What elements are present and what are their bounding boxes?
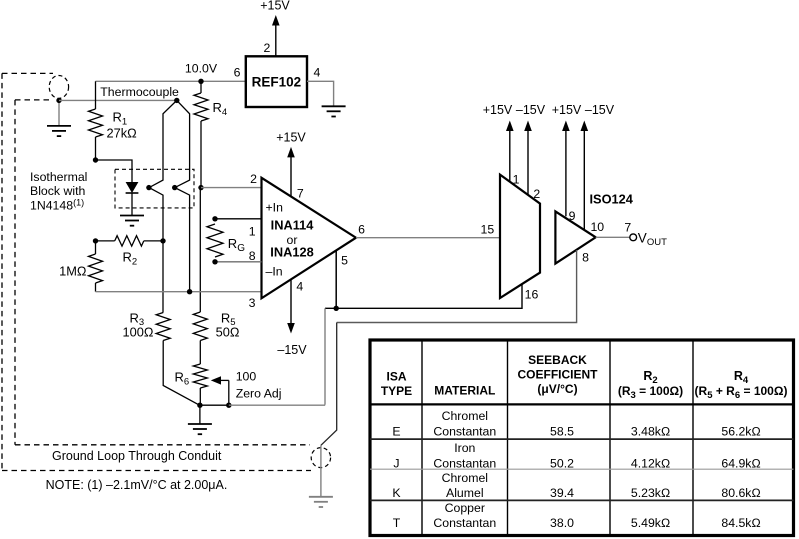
label ISO124 <box>590 191 634 206</box>
svg-text:–15V: –15V <box>277 343 307 357</box>
label INA128 <box>270 245 313 260</box>
wire diode cathode lead <box>131 193 133 216</box>
wire diode anode lead <box>96 160 133 182</box>
label or <box>287 233 298 247</box>
label 10.0V <box>185 61 218 75</box>
value 100Ohm (R3) <box>123 325 154 340</box>
table row type J <box>393 441 760 470</box>
conduit opening ellipse (bottom right) <box>311 448 330 468</box>
resistor R3 <box>156 313 170 341</box>
wire zero-adj node to pin5 riser <box>229 404 325 406</box>
iso-amp U2 ISO124 input trapezoid <box>500 175 540 298</box>
svg-text:Block with: Block with <box>30 184 86 198</box>
label -15V (INA) <box>277 343 307 357</box>
ground R6 node <box>188 424 212 434</box>
power -15V arrow (ISO pin 2) <box>524 121 532 195</box>
label -In <box>266 265 283 279</box>
wire thermocouple shield node to junction <box>59 99 177 101</box>
wire -In rail to INA pin 3 <box>96 291 262 293</box>
svg-text:–In: –In <box>266 265 283 279</box>
svg-text:–15V: –15V <box>585 103 615 117</box>
svg-text:SEEBACK: SEEBACK <box>528 353 587 367</box>
ground conduit (earth) <box>309 497 333 507</box>
svg-text:7: 7 <box>624 221 631 235</box>
svg-text:4.12kΩ: 4.12kΩ <box>631 456 670 470</box>
resistor R2 <box>115 236 144 246</box>
svg-text:6: 6 <box>234 66 241 80</box>
svg-text:Zero Adj: Zero Adj <box>236 386 282 400</box>
label ISO pin 10 <box>590 220 604 234</box>
wire 1M bottom lead to -In rail corner <box>95 283 97 292</box>
svg-text:56.2kΩ: 56.2kΩ <box>721 424 760 438</box>
svg-text:4: 4 <box>313 66 320 80</box>
svg-text:INA128: INA128 <box>270 245 313 260</box>
value 27kOhm (R1) <box>107 126 138 141</box>
svg-text:9: 9 <box>569 209 576 223</box>
svg-text:64.9kΩ: 64.9kΩ <box>721 456 760 470</box>
label R5 <box>221 310 236 328</box>
wire 10.0V rail corner down to R1 <box>95 81 97 109</box>
label +15V (REF102) <box>260 0 290 13</box>
wire ISO pin 10 to VOUT <box>596 236 630 238</box>
ground REF102 pin 4 <box>322 106 346 116</box>
node thermocouple junction <box>174 98 179 103</box>
svg-text:8: 8 <box>582 251 589 265</box>
ground diode <box>120 216 144 226</box>
label REF102 pin 4 <box>313 66 320 80</box>
label INA pin 2 <box>250 172 257 186</box>
svg-text:Thermocouple: Thermocouple <box>100 85 179 99</box>
wire R4 bottom lead to +In node <box>200 121 202 188</box>
label INA pin 3 <box>249 296 256 310</box>
svg-text:ISO124: ISO124 <box>590 191 634 206</box>
value 50Ohm (R5) <box>216 325 240 340</box>
svg-text:COEFFICIENT: COEFFICIENT <box>518 367 599 381</box>
svg-text:84.5kΩ: 84.5kΩ <box>721 516 760 530</box>
svg-text:J: J <box>393 456 399 470</box>
node RG bottom <box>212 259 217 264</box>
node R6 ground junction <box>197 403 202 408</box>
conduit shield inner dashed line (bottom horizontal) <box>15 444 310 446</box>
wire R4 top lead <box>200 81 202 93</box>
svg-text:80.6kΩ: 80.6kΩ <box>721 486 760 500</box>
power +15V arrow (INA pin 7) <box>287 147 295 197</box>
node +In junction (R4/R5) <box>198 185 203 190</box>
node thermocouple right junction on isothermal block <box>172 185 177 190</box>
label Ground Loop Through Conduit <box>52 449 222 463</box>
svg-text:TYPE: TYPE <box>381 384 412 398</box>
label R3 <box>130 310 145 328</box>
svg-text:–15V: –15V <box>516 103 546 117</box>
wire 10.0V rail <box>96 80 246 82</box>
conduit shield outer dashed line (top horizontal) <box>2 72 53 74</box>
power +15V arrow (REF102 pin 2) <box>272 15 280 56</box>
table row separator K/T <box>370 499 794 501</box>
svg-text:6: 6 <box>358 222 365 236</box>
label ISO pin 2 <box>533 187 540 201</box>
svg-text:E: E <box>392 424 400 438</box>
power +15V arrow (ISO pin 1) <box>506 121 514 182</box>
svg-text:INA114: INA114 <box>271 218 315 233</box>
wire pin-8 net down to conduit opening <box>321 323 337 446</box>
svg-text:(μV/°C): (μV/°C) <box>537 382 577 396</box>
table row type T <box>393 501 761 530</box>
resistor R6 (Zero Adj pot) <box>193 364 207 388</box>
terminal VOUT circle <box>630 234 637 241</box>
svg-text:3: 3 <box>249 296 256 310</box>
svg-text:Constantan: Constantan <box>433 456 496 470</box>
isothermal block dashed box <box>115 169 194 208</box>
resistor R1 <box>89 109 103 137</box>
conduit shield outer dashed line (bottom horizontal) <box>2 470 311 472</box>
wire conduit ground lead <box>320 445 322 497</box>
svg-text:1: 1 <box>249 225 256 239</box>
svg-text:15: 15 <box>481 222 495 236</box>
label R6 <box>175 370 190 388</box>
wire R2 left lead <box>96 240 115 242</box>
label Thermocouple <box>100 85 179 99</box>
label INA pin 6 <box>358 222 365 236</box>
svg-text:T: T <box>393 516 401 530</box>
label INA pin 4 <box>296 279 303 293</box>
label REF102 pin 2 <box>263 41 270 55</box>
conduit shield outer dashed line (left vertical) <box>1 73 3 470</box>
svg-text:3.48kΩ: 3.48kΩ <box>631 424 670 438</box>
svg-text:5: 5 <box>341 253 348 267</box>
wire RG top stub to pin 1 <box>215 218 262 220</box>
label INA pin 1 <box>249 225 256 239</box>
in-amp U1 INA114/INA128 triangle <box>262 178 357 298</box>
conduit shield inner dashed line (vertical) <box>14 100 16 445</box>
wire INA pin 5 down <box>335 250 337 308</box>
svg-text:100: 100 <box>236 370 257 384</box>
svg-text:Ground Loop Through Conduit: Ground Loop Through Conduit <box>52 449 222 463</box>
table header text <box>381 353 788 401</box>
label ISO pin 16 <box>525 288 539 302</box>
diode D1 1N4148 <box>126 182 139 193</box>
svg-text:Copper: Copper <box>445 501 485 515</box>
svg-text:1: 1 <box>513 173 520 187</box>
svg-text:50.2: 50.2 <box>550 456 574 470</box>
svg-text:Isothermal: Isothermal <box>30 170 87 184</box>
label +15V (INA) <box>276 130 306 144</box>
label 100 (R6 value) <box>236 370 257 384</box>
svg-text:27kΩ: 27kΩ <box>107 126 138 141</box>
svg-text:58.5: 58.5 <box>550 424 574 438</box>
svg-text:Constantan: Constantan <box>433 424 496 438</box>
wire thermocouple left lead <box>149 100 177 312</box>
label R4 <box>213 100 228 118</box>
label +15V (ISO output) <box>552 103 582 117</box>
svg-text:100Ω: 100Ω <box>123 325 154 340</box>
svg-text:4: 4 <box>296 279 303 293</box>
wire R4 node down to R5 <box>199 188 201 312</box>
wire R6 node to ground <box>199 405 201 424</box>
label +In <box>266 201 284 215</box>
svg-text:+15V: +15V <box>552 103 582 117</box>
wire 1M top lead <box>95 241 97 254</box>
resistor R5 <box>193 312 207 341</box>
svg-text:5.49kΩ: 5.49kΩ <box>631 516 670 530</box>
svg-text:38.0: 38.0 <box>550 516 574 530</box>
wire R1 bottom lead <box>95 137 97 160</box>
power +15V arrow (ISO pin 9) <box>562 121 570 217</box>
label INA114 <box>271 218 315 233</box>
svg-text:50Ω: 50Ω <box>216 325 240 340</box>
svg-text:2: 2 <box>263 41 270 55</box>
svg-text:2: 2 <box>250 172 257 186</box>
svg-text:+In: +In <box>266 201 284 215</box>
power -15V arrow (INA pin 4) <box>287 279 295 333</box>
svg-text:REF102: REF102 <box>252 75 302 90</box>
conduit shield inner dashed line (top horizontal) <box>15 99 50 101</box>
svg-text:1MΩ: 1MΩ <box>59 264 87 279</box>
wire R2 right lead <box>144 240 163 242</box>
wire thermocouple right lead <box>175 100 190 292</box>
node R1 / diode junction <box>93 157 98 162</box>
wire +In to INA pin 2 <box>201 187 262 189</box>
label ISO pin 15 <box>481 222 495 236</box>
node pin5 junction <box>334 306 339 311</box>
wire R3 bottom lead and diagonal to ground node <box>163 341 199 406</box>
svg-text:7: 7 <box>297 186 304 200</box>
label Isothermal Block with 1N4148(1) <box>30 170 87 213</box>
node thermocouple left junction on isothermal block <box>146 185 151 190</box>
wire R5 to R6 <box>199 341 201 365</box>
wire R6 bottom lead <box>199 388 201 405</box>
table outer border <box>370 340 794 536</box>
label ISO pin 1 <box>513 173 520 187</box>
svg-text:+15V: +15V <box>260 0 290 13</box>
resistor RG <box>207 224 223 257</box>
node R2 right junction <box>160 238 165 243</box>
resistor R4 <box>194 93 208 121</box>
power -15V arrow (ISO pin 10) <box>581 121 589 231</box>
resistor 1MOhm <box>89 254 103 283</box>
svg-text:8: 8 <box>249 249 256 263</box>
label -15V (ISO output) <box>585 103 615 117</box>
node shield junction <box>56 98 61 103</box>
table header separator <box>370 403 794 405</box>
svg-text:Chromel: Chromel <box>442 471 488 485</box>
svg-text:+15V: +15V <box>276 130 306 144</box>
label Zero Adj <box>236 386 282 400</box>
label +15V (ISO input) <box>483 103 513 117</box>
table column lines <box>422 340 693 536</box>
svg-text:ISA: ISA <box>386 369 406 383</box>
pot R6 wiper arrow <box>211 376 229 405</box>
label INA pin 8 <box>249 249 256 263</box>
svg-text:39.4: 39.4 <box>550 486 574 500</box>
svg-text:10.0V: 10.0V <box>185 61 218 75</box>
wire ground node segment <box>200 404 229 406</box>
label REF102 pin 6 <box>234 66 241 80</box>
svg-text:+15V: +15V <box>483 103 513 117</box>
label R1 <box>113 110 128 128</box>
node -In / thermocouple junction <box>187 289 192 294</box>
wire REF102 pin 4 to ground <box>307 81 334 106</box>
label INA pin 7 <box>297 186 304 200</box>
label VOUT <box>638 230 667 248</box>
table row type E <box>392 409 760 438</box>
svg-text:Alumel: Alumel <box>446 486 484 500</box>
wire INA pin 6 to ISO pin 15 <box>356 237 500 239</box>
svg-text:K: K <box>392 486 401 500</box>
node R6 wiper junction <box>226 403 231 408</box>
svg-text:10: 10 <box>590 220 604 234</box>
ref IC REF102 box <box>246 56 307 107</box>
note text <box>46 478 228 492</box>
svg-text:5.23kΩ: 5.23kΩ <box>631 486 670 500</box>
wire RG bottom stub to pin 8 <box>215 261 262 263</box>
label ISO pin 7 <box>624 221 631 235</box>
node RG top <box>212 216 217 221</box>
iso-amp U2 ISO124 output triangle <box>555 211 595 263</box>
label R2 <box>123 250 138 268</box>
svg-text:NOTE: (1) –2.1mV/°C at 2.00μA.: NOTE: (1) –2.1mV/°C at 2.00μA. <box>46 478 228 492</box>
label ISO pin 9 <box>569 209 576 223</box>
conduit opening ellipse (top left) <box>49 76 68 99</box>
wire pin5 node down to zero-adj net <box>324 308 326 404</box>
ground shield (top left) <box>47 126 71 136</box>
svg-text:Constantan: Constantan <box>433 516 496 530</box>
table row separator E/J <box>370 438 794 440</box>
label ISO pin 8 <box>582 251 589 265</box>
svg-text:16: 16 <box>525 288 539 302</box>
wire shield to ground <box>58 100 60 126</box>
label INA pin 5 <box>341 253 348 267</box>
wire ISO pin 8 down and left <box>337 250 577 323</box>
table row type K <box>392 471 760 500</box>
svg-text:Chromel: Chromel <box>442 409 488 423</box>
node 10.0V / R4 junction <box>198 79 203 84</box>
label -15V (ISO input) <box>516 103 546 117</box>
wire pin5 node to ISO pin 16 <box>325 284 522 308</box>
svg-text:2: 2 <box>533 187 540 201</box>
svg-text:MATERIAL: MATERIAL <box>434 383 495 397</box>
value 1MOhm <box>59 264 87 279</box>
label RG <box>228 236 245 254</box>
table row separator J/K <box>370 468 794 470</box>
node R2 left junction <box>93 238 98 243</box>
svg-text:Iron: Iron <box>454 441 475 455</box>
